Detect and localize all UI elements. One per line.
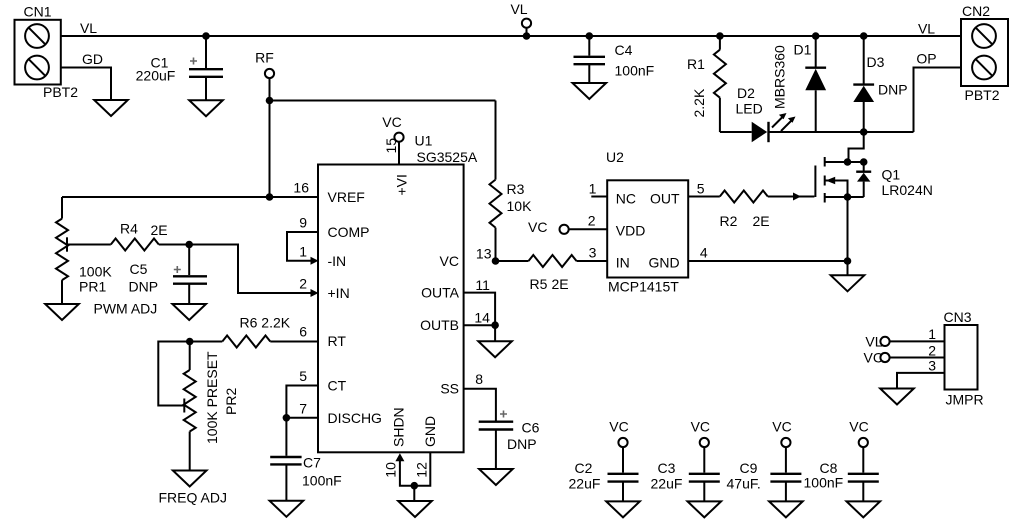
wire node row — [770, 131, 914, 133]
svg-text:100K PRESET: 100K PRESET — [204, 351, 220, 444]
diode D3 DNP — [853, 32, 907, 132]
svg-text:CN2: CN2 — [962, 3, 990, 19]
ground — [831, 275, 865, 291]
svg-text:U1: U1 — [415, 133, 433, 149]
ground — [478, 341, 512, 357]
drain lead — [825, 161, 864, 163]
ground — [94, 100, 128, 116]
capacitor C5 — [129, 245, 208, 305]
svg-text:VDD: VDD — [616, 223, 646, 239]
svg-text:IN: IN — [616, 255, 630, 271]
svg-text:VC: VC — [440, 253, 459, 269]
svg-text:PBT2: PBT2 — [965, 87, 1000, 103]
node VL (top) — [510, 1, 531, 40]
wire RF to R3 — [270, 100, 496, 102]
wire OP — [914, 68, 962, 133]
channel segments — [824, 157, 826, 167]
svg-text:RF: RF — [255, 50, 274, 66]
capacitor C6 — [479, 411, 540, 470]
svg-text:13: 13 — [476, 246, 492, 262]
ground — [398, 501, 432, 517]
svg-text:2.2K: 2.2K — [691, 88, 707, 117]
svg-text:2E: 2E — [753, 213, 770, 229]
svg-text:DISCHG: DISCHG — [328, 410, 382, 426]
svg-text:VC: VC — [691, 419, 710, 435]
svg-text:GD: GD — [82, 51, 103, 67]
svg-text:47uF.: 47uF. — [727, 476, 761, 492]
svg-text:100nF: 100nF — [804, 475, 844, 491]
svg-text:6: 6 — [299, 324, 307, 340]
svg-text:D2: D2 — [737, 85, 755, 101]
svg-text:CT: CT — [328, 378, 347, 394]
svg-text:U2: U2 — [606, 149, 624, 165]
op-amp U2 MCP1415T box — [606, 149, 688, 295]
node VC (CN3 pin 2) — [864, 343, 945, 366]
wire to +IN — [189, 245, 316, 294]
svg-text:-IN: -IN — [328, 253, 347, 269]
wire drain jog — [849, 132, 864, 162]
svg-text:C6: C6 — [522, 420, 540, 436]
pin 8 SS — [464, 389, 496, 421]
svg-text:VL: VL — [80, 20, 97, 36]
ground — [769, 501, 803, 517]
svg-text:9: 9 — [299, 215, 307, 231]
source lead — [825, 196, 864, 198]
svg-text:1: 1 — [928, 326, 936, 342]
svg-text:3: 3 — [928, 358, 936, 374]
capacitor C8 — [804, 419, 879, 502]
svg-text:DNP: DNP — [878, 82, 908, 98]
svg-text:10: 10 — [382, 462, 398, 478]
svg-text:22uF: 22uF — [569, 476, 601, 492]
svg-text:11: 11 — [475, 277, 490, 293]
svg-text:D3: D3 — [867, 54, 885, 70]
svg-text:3: 3 — [589, 245, 597, 261]
resistor R4 — [67, 221, 189, 251]
svg-text:VC: VC — [849, 419, 868, 435]
wire VL rail — [61, 35, 961, 37]
svg-text:2: 2 — [588, 213, 596, 229]
svg-text:100K: 100K — [79, 264, 112, 280]
resistor R3 — [490, 101, 533, 262]
CN3 pin 3 to ground — [897, 373, 945, 389]
capacitor C9 — [727, 419, 802, 502]
svg-text:C3: C3 — [658, 460, 676, 476]
node RF — [255, 50, 274, 79]
resistor R5 — [496, 245, 608, 293]
ground — [45, 304, 79, 320]
ground — [606, 501, 640, 517]
svg-text:FREQ ADJ: FREQ ADJ — [159, 490, 227, 506]
capacitor C4 — [574, 32, 655, 83]
svg-text:VC: VC — [772, 419, 791, 435]
pins 10 SHDN / 12 GND — [382, 452, 430, 501]
svg-text:DNP: DNP — [129, 279, 159, 295]
svg-text:PBT2: PBT2 — [43, 84, 78, 100]
svg-text:16: 16 — [293, 180, 309, 196]
svg-text:CN1: CN1 — [23, 4, 51, 20]
ground — [270, 501, 304, 517]
capacitor C7 — [270, 418, 342, 501]
pin 16 VREF wire — [62, 196, 318, 198]
svg-text:GND: GND — [422, 416, 438, 447]
svg-text:C4: C4 — [615, 42, 633, 58]
svg-text:+IN: +IN — [328, 285, 350, 301]
connector CN2 — [961, 3, 1008, 103]
svg-text:R5: R5 — [530, 276, 548, 292]
resistor R2 — [688, 181, 814, 230]
svg-text:VL: VL — [510, 1, 527, 17]
pin 11 OUTA / pin 14 OUTB — [464, 277, 499, 341]
potentiometer PR1 — [56, 197, 157, 317]
svg-text:7: 7 — [299, 401, 307, 417]
wire RF vertical — [269, 78, 271, 197]
pin 9 COMP loop to pin 1 — [287, 232, 318, 261]
svg-text:PR2: PR2 — [223, 388, 239, 415]
svg-text:OUTB: OUTB — [420, 317, 459, 333]
svg-text:LR024N: LR024N — [882, 182, 933, 198]
svg-text:10K: 10K — [507, 198, 533, 214]
node VL (CN3 pin 1) — [865, 326, 944, 350]
svg-text:RT: RT — [328, 333, 347, 349]
svg-text:MBRS360: MBRS360 — [772, 45, 788, 109]
svg-text:5: 5 — [697, 181, 705, 197]
ground — [688, 501, 722, 517]
svg-text:JMPR: JMPR — [946, 392, 984, 408]
svg-text:C2: C2 — [575, 460, 593, 476]
node VC (VDD) — [528, 213, 607, 236]
svg-text:OUT: OUT — [650, 191, 680, 207]
wire GD — [61, 68, 111, 101]
ground — [172, 304, 206, 320]
capacitor C1 — [136, 32, 223, 100]
svg-text:DNP: DNP — [507, 436, 537, 452]
body diode — [863, 162, 865, 171]
pin 13 VC wire — [492, 257, 500, 265]
svg-text:8: 8 — [475, 371, 483, 387]
svg-text:SG3525A: SG3525A — [417, 149, 478, 165]
wire source to gnd row — [847, 197, 849, 261]
svg-text:OP: OP — [916, 51, 936, 67]
svg-text:22uF: 22uF — [651, 476, 683, 492]
potentiometer PR2 — [158, 342, 239, 506]
connector CN3 — [944, 309, 984, 408]
svg-text:C9: C9 — [740, 460, 758, 476]
svg-text:1: 1 — [299, 244, 307, 260]
pin 4 GND wire — [688, 260, 847, 262]
pin 15 VC — [382, 114, 403, 165]
ground — [573, 83, 607, 99]
svg-text:4: 4 — [700, 245, 708, 261]
svg-text:2E: 2E — [552, 276, 569, 292]
svg-text:12: 12 — [414, 462, 430, 478]
capacitor C3 — [651, 419, 720, 502]
svg-text:LED: LED — [736, 101, 763, 117]
capacitor C2 — [569, 419, 639, 502]
svg-text:R2: R2 — [720, 213, 738, 229]
svg-text:C5: C5 — [130, 261, 148, 277]
svg-text:GND: GND — [648, 255, 679, 271]
transistor Q1 LR024N — [815, 132, 932, 203]
svg-text:14: 14 — [474, 310, 490, 326]
pin 5 CT / pin 7 DISCHG — [286, 386, 318, 418]
svg-text:Q1: Q1 — [882, 167, 901, 183]
svg-text:1: 1 — [589, 181, 597, 197]
svg-text:R1: R1 — [687, 56, 705, 72]
svg-text:2: 2 — [928, 343, 936, 359]
LED D2 — [720, 85, 796, 142]
svg-text:NC: NC — [616, 191, 636, 207]
ground — [847, 501, 881, 517]
svg-text:SS: SS — [440, 381, 459, 397]
svg-text:+VI: +VI — [394, 174, 410, 195]
ground — [189, 100, 223, 116]
pin 1 NC stub — [591, 196, 607, 198]
svg-text:VC: VC — [528, 219, 547, 235]
svg-text:MCP1415T: MCP1415T — [608, 279, 679, 295]
svg-text:R6 2.2K: R6 2.2K — [240, 315, 291, 331]
svg-text:2E: 2E — [151, 222, 168, 238]
svg-text:100nF: 100nF — [302, 473, 342, 489]
ground — [479, 469, 513, 485]
svg-text:220uF: 220uF — [136, 68, 176, 84]
svg-text:R3: R3 — [507, 181, 525, 197]
svg-text:2: 2 — [299, 276, 307, 292]
svg-text:D1: D1 — [794, 42, 812, 58]
connector CN1 — [15, 4, 79, 101]
svg-text:VL: VL — [918, 21, 935, 37]
svg-text:OUTA: OUTA — [421, 285, 460, 301]
svg-text:SHDN: SHDN — [391, 407, 407, 447]
svg-text:5: 5 — [299, 368, 307, 384]
svg-text:PR1: PR1 — [79, 279, 106, 295]
op-amp U1 SG3525A box — [318, 133, 478, 453]
svg-text:COMP: COMP — [328, 224, 370, 240]
svg-text:PWM ADJ: PWM ADJ — [94, 301, 158, 317]
resistor R6 — [186, 315, 318, 348]
diode D1 MBRS360 — [772, 32, 827, 132]
gate bar — [814, 166, 816, 198]
svg-text:100nF: 100nF — [615, 63, 655, 79]
svg-text:VC: VC — [382, 114, 401, 130]
ground — [173, 471, 207, 487]
svg-text:C7: C7 — [303, 455, 321, 471]
ground — [880, 389, 914, 405]
svg-text:CN3: CN3 — [944, 309, 972, 325]
body lead with arrow — [825, 181, 848, 198]
svg-text:15: 15 — [383, 138, 399, 154]
svg-text:VREF: VREF — [328, 189, 365, 205]
svg-text:R4: R4 — [120, 221, 138, 237]
svg-text:VC: VC — [609, 419, 628, 435]
resistor R1 — [687, 32, 726, 132]
